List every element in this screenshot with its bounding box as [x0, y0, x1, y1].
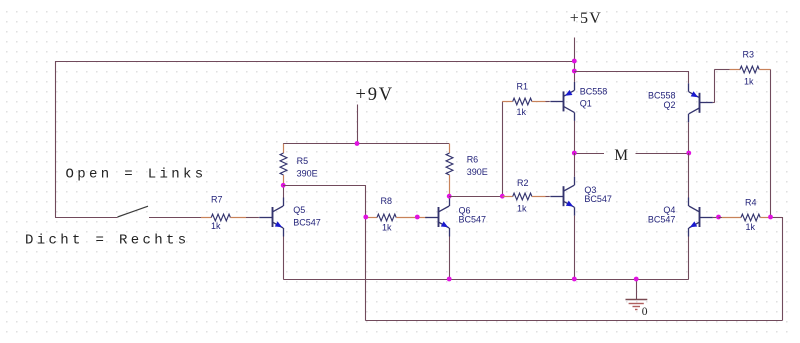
- node junction Q3 emitter / ground rail: [572, 277, 577, 282]
- node junction +9V rail: [355, 141, 360, 146]
- label R8 name: [381, 196, 393, 206]
- node junction Q6 emitter / ground rail: [447, 277, 452, 282]
- wire cross-coupling horizontal from R5 bottom: [283, 185, 366, 187]
- wire Q2 base lead to riser: [713, 102, 715, 104]
- resistor R8: [366, 214, 428, 221]
- svg-text:M: M: [614, 147, 628, 164]
- transistor Q4 BC547: [689, 198, 713, 237]
- label Q1 name: [580, 98, 592, 108]
- label Q6 value: [459, 215, 487, 225]
- wire bottom feedback rail: [366, 320, 782, 322]
- wire R1 to R2 column: [502, 101, 504, 196]
- label R1 value: [517, 107, 527, 117]
- resistor R5: [280, 144, 287, 186]
- label R3 value: [744, 77, 754, 87]
- node junction R8 left: [363, 215, 368, 220]
- svg-text:BC547: BC547: [459, 215, 487, 225]
- node junction M left: [572, 151, 577, 156]
- svg-text:Q1: Q1: [580, 98, 592, 108]
- wire Q6 emitter drop: [449, 237, 451, 280]
- label R4 name: [745, 197, 757, 207]
- svg-text:390E: 390E: [467, 167, 488, 177]
- wire M node to Q4 collector: [688, 153, 690, 198]
- svg-text:Open = Links: Open = Links: [66, 166, 207, 182]
- label R6 value: [467, 167, 488, 177]
- resistor R1: [502, 98, 550, 105]
- label Q4 name: [663, 205, 675, 215]
- node junction R1/R2 column: [500, 194, 505, 199]
- wire node M right segment: [636, 153, 689, 155]
- transistor Q3 BC547: [550, 177, 574, 216]
- resistor R7: [201, 214, 259, 221]
- svg-text:R4: R4: [745, 197, 757, 207]
- svg-text:Dicht = Rechts: Dicht = Rechts: [25, 233, 190, 249]
- wire Q2 collector to node M: [688, 122, 690, 153]
- label R2 name: [517, 178, 529, 188]
- wire Q2 base riser: [714, 70, 716, 103]
- svg-text:1k: 1k: [382, 223, 392, 233]
- label R5 name: [297, 156, 309, 166]
- power +9V stub: [357, 105, 359, 144]
- node junction R5/Q5/cross-wire: [281, 183, 286, 188]
- wire R3 right column down to R4: [770, 70, 772, 218]
- label Q2 value: [648, 90, 676, 100]
- label ground 0: [642, 306, 648, 318]
- ground symbol 0: [626, 279, 648, 310]
- switch SW1 blade: [118, 206, 149, 217]
- transistor Q6 BC547: [425, 198, 449, 237]
- label Q5 value: [293, 218, 321, 228]
- svg-text:+9V: +9V: [356, 85, 394, 105]
- label Q3 value: [584, 194, 612, 204]
- label +5V: [570, 10, 602, 27]
- svg-text:Q4: Q4: [663, 205, 675, 215]
- resistor R2: [502, 193, 550, 200]
- transistor Q5 BC547: [259, 198, 283, 237]
- svg-text:BC558: BC558: [580, 87, 608, 97]
- label switch closed: [25, 233, 190, 249]
- node junction R6 bottom / Q6 collector: [447, 194, 452, 199]
- svg-text:+5V: +5V: [570, 10, 602, 27]
- label +9V: [356, 85, 394, 105]
- label R5 value: [297, 169, 318, 179]
- wire R6 bottom to R1/R2 column: [449, 196, 502, 198]
- label R8 value: [382, 223, 392, 233]
- label R7 value: [211, 221, 221, 231]
- wire Q4 emitter to ground rail: [688, 237, 690, 280]
- svg-text:390E: 390E: [297, 169, 318, 179]
- wire left column: [55, 61, 57, 217]
- label R7 name: [211, 195, 223, 205]
- label Q6 name: [459, 205, 471, 215]
- svg-text:Q2: Q2: [663, 100, 675, 110]
- wire ground rail: [283, 279, 689, 281]
- transistor Q2 BC558: [689, 83, 713, 122]
- svg-text:BC547: BC547: [293, 218, 321, 228]
- svg-text:BC547: BC547: [584, 194, 612, 204]
- label Q2 name: [663, 100, 675, 110]
- svg-text:BC547: BC547: [648, 215, 676, 225]
- label R2 value: [517, 204, 527, 214]
- svg-text:1k: 1k: [517, 204, 527, 214]
- wire +5V rail to Q2 emitter: [574, 71, 689, 73]
- label R3 name: [743, 50, 755, 60]
- label R6 name: [467, 154, 479, 164]
- label R1 name: [517, 82, 529, 92]
- wire +9V rail R5 to R6: [283, 143, 449, 145]
- label Q4 value: [648, 215, 676, 225]
- wire switch left arm: [55, 217, 118, 219]
- label Q3 name: [584, 185, 596, 195]
- power +5V stub: [574, 38, 576, 82]
- label node M: [614, 147, 628, 164]
- svg-text:R6: R6: [467, 154, 479, 164]
- wire Q5 emitter drop: [283, 237, 285, 280]
- node junction R8 right / Q6 base: [415, 215, 420, 220]
- label switch open: [66, 166, 207, 182]
- wire R5 bottom to Q5 collector: [283, 185, 285, 197]
- transistor Q1 BC558: [550, 82, 574, 121]
- wire cross-coupling vertical: [365, 185, 367, 320]
- label Q1 value: [580, 87, 608, 97]
- wire Q4 base lead to R4: [713, 217, 719, 219]
- node junction Q4 base / R4 left: [716, 215, 721, 220]
- node junction M right: [686, 151, 691, 156]
- svg-text:1k: 1k: [744, 77, 754, 87]
- resistor R3: [714, 66, 770, 73]
- node junction top rail / +5V: [572, 59, 577, 64]
- wire Q2 emitter drop: [688, 71, 690, 83]
- node junction ground / rail: [634, 277, 639, 282]
- svg-text:0: 0: [642, 306, 648, 318]
- wire Q3 emitter to ground rail: [574, 216, 576, 279]
- svg-text:R8: R8: [381, 196, 393, 206]
- resistor R4: [719, 214, 771, 221]
- label Q5 name: [293, 205, 305, 215]
- svg-text:1k: 1k: [746, 222, 756, 232]
- node junction +5V branch to Q2: [572, 69, 577, 74]
- svg-text:1k: 1k: [517, 107, 527, 117]
- label R4 value: [746, 222, 756, 232]
- svg-text:R2: R2: [517, 178, 529, 188]
- node junction R4 right / feedback: [768, 215, 773, 220]
- wire Q1 collector to node M: [574, 121, 576, 153]
- svg-text:R1: R1: [517, 82, 529, 92]
- resistor R6: [446, 144, 453, 197]
- wire top rail from switch column to +5V column: [55, 61, 574, 63]
- svg-text:R5: R5: [297, 156, 309, 166]
- wire jog to R4 right node: [771, 217, 783, 219]
- svg-text:R7: R7: [211, 195, 223, 205]
- svg-text:R3: R3: [743, 50, 755, 60]
- wire M node to Q3 collector: [574, 153, 576, 177]
- svg-text:1k: 1k: [211, 221, 221, 231]
- wire right feedback riser: [782, 217, 784, 321]
- wire switch right contact to R7: [149, 217, 201, 219]
- svg-text:Q5: Q5: [293, 205, 305, 215]
- wire node M left segment: [574, 153, 604, 155]
- svg-text:BC558: BC558: [648, 90, 676, 100]
